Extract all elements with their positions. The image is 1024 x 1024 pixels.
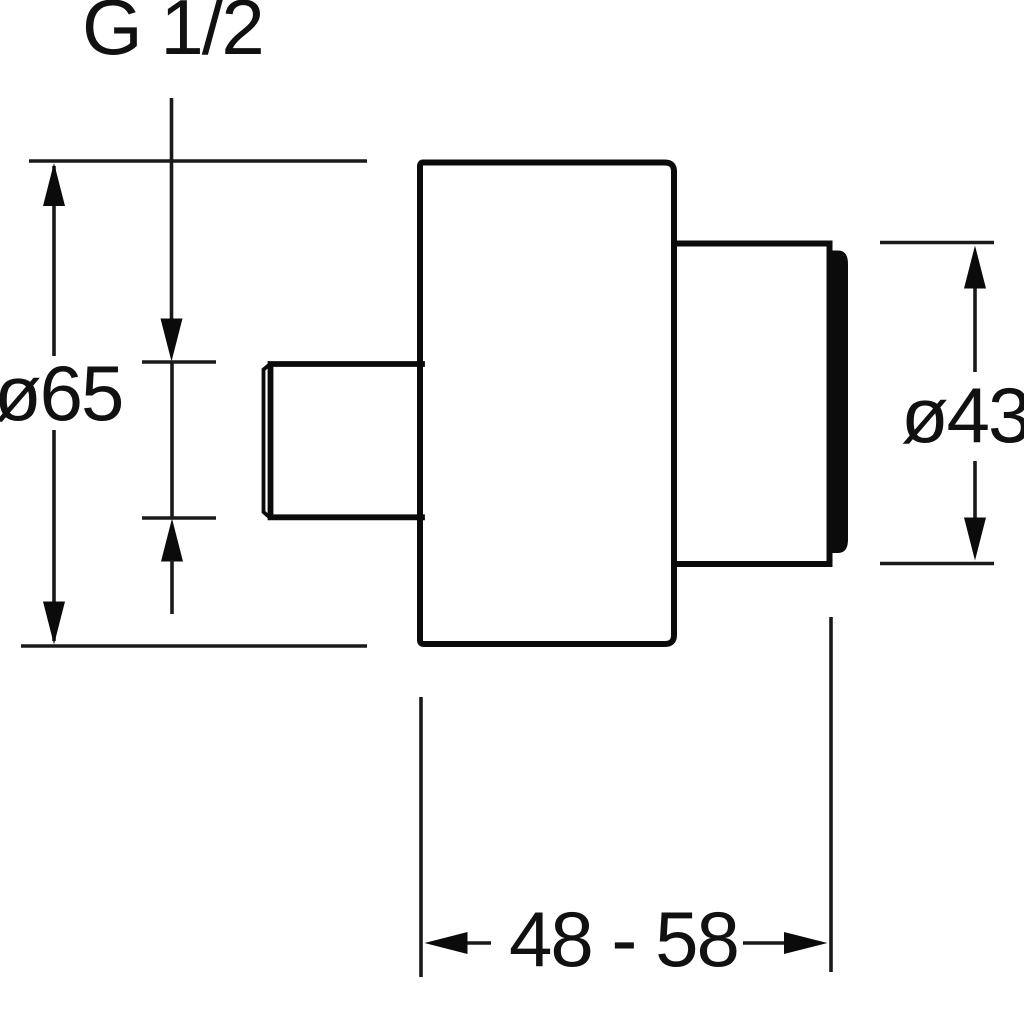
bottom right extension line <box>829 617 833 972</box>
svg-text:ø65: ø65 <box>0 349 122 437</box>
bottom dimension line right segment <box>743 941 790 945</box>
spigot lower arrow up <box>161 519 183 562</box>
left threaded spigot outline <box>271 364 423 517</box>
G 1/2 dimension line between ticks <box>170 362 174 518</box>
dia65 dimension line vertical <box>52 166 56 641</box>
dia43 arrow down <box>964 518 986 561</box>
svg-text:48 - 58: 48 - 58 <box>509 895 738 983</box>
spigot top tick <box>142 360 216 364</box>
right end cap (black) <box>831 251 848 554</box>
extension line bottom left (body bottom) <box>21 644 367 648</box>
bottom left extension line <box>419 697 423 977</box>
bottom dimension arrow left <box>425 932 468 954</box>
svg-text:G 1/2: G 1/2 <box>82 0 263 71</box>
dia43 arrow up <box>964 246 986 289</box>
spigot lower arrow shaft <box>170 560 174 614</box>
G 1/2 leader line <box>170 98 174 322</box>
bottom dimension arrow right <box>784 932 828 954</box>
bottom dimension line left segment <box>462 941 491 945</box>
dia65 arrow up <box>43 163 65 206</box>
dia65 arrow down <box>43 602 65 645</box>
G 1/2 leader arrow down <box>161 319 183 362</box>
right barrel outline <box>674 244 830 565</box>
dia43 top tick <box>880 241 994 245</box>
dia43 dimension line vertical <box>973 288 977 520</box>
svg-text:ø43: ø43 <box>901 371 1024 459</box>
spigot end chamfer face line <box>264 365 270 517</box>
spigot bottom tick <box>142 516 216 520</box>
extension line top left (body top) <box>29 159 367 163</box>
dia43 bottom tick <box>880 562 994 566</box>
main body outline <box>420 163 674 645</box>
